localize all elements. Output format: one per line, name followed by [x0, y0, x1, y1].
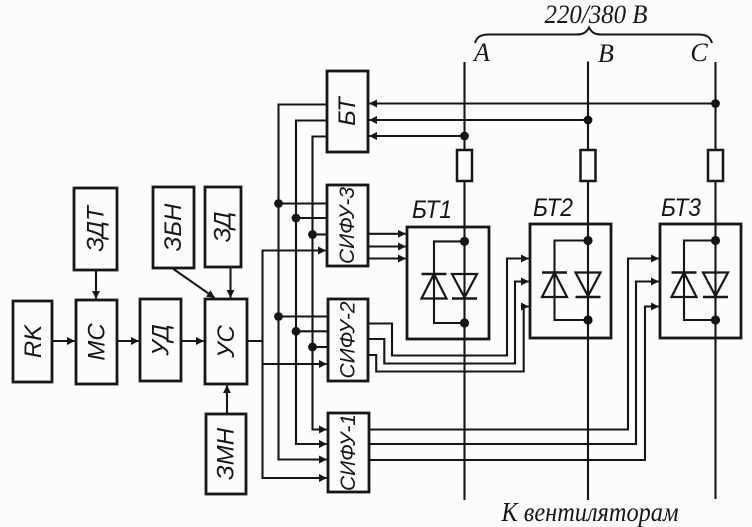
svg-text:ЗМН: ЗМН [213, 427, 240, 480]
block BT2 [530, 194, 611, 338]
wire SIFU-3 out 2 to BT1 [368, 245, 406, 247]
thyristor VS3b (down) in BT3 [703, 273, 728, 298]
BT3 internal commutation loop [684, 241, 716, 321]
block SIFU-2 [328, 299, 368, 381]
wire US output distribution [247, 251, 326, 342]
svg-text:ЗБН: ЗБН [160, 203, 187, 251]
svg-text:СИФУ-2: СИФУ-2 [337, 301, 360, 378]
svg-text:БТ3: БТ3 [661, 194, 701, 222]
wire ZD to US [229, 267, 231, 298]
svg-text:С: С [690, 38, 708, 67]
svg-text:МС: МС [84, 323, 111, 361]
wire riser1 tap to SIFU-2 [279, 315, 329, 317]
thyristor VS2a (up) in BT2 [542, 273, 567, 298]
BT1 internal commutation loop [434, 241, 465, 323]
svg-text:БТ1: БТ1 [412, 196, 452, 224]
phase line B [587, 62, 589, 151]
fuse FU2 phase B [581, 150, 596, 181]
junction dot riser1/SIFU-2 [274, 312, 283, 321]
wire riser3 tap to SIFU-2 [313, 346, 329, 348]
wire phase C to BT input 1 [370, 102, 716, 104]
junction dot riser3/SIFU-2 [308, 343, 317, 352]
wire phase A to BT input 3 [370, 135, 465, 137]
block MC [76, 300, 117, 384]
block BT [327, 71, 368, 152]
block RK [13, 301, 52, 382]
wire SIFU-2 out 1 to BT2 [368, 259, 529, 356]
svg-text:RK: RK [20, 324, 47, 358]
block SIFU-1 [328, 413, 369, 492]
wire phase B to BT input 2 [370, 119, 589, 121]
block ZBN [153, 187, 194, 268]
phase line C [714, 62, 716, 150]
wire ZBN to US diagonal [172, 268, 215, 298]
wire RK to MC [52, 340, 75, 342]
junction dot BT1 top [460, 237, 469, 246]
thyristor VS3a (up) in BT3 [672, 273, 697, 298]
block ZDT [74, 188, 117, 270]
wire BT sync riser 1 [279, 105, 328, 460]
block ZMN [206, 414, 246, 494]
wire BT sync riser 2 [296, 121, 327, 445]
fuse FU3 phase C [708, 150, 723, 181]
block UD [140, 299, 181, 381]
wire SIFU-1 out 2 to BT3 [369, 282, 659, 445]
wire SIFU-1 out 3 to BT3 [369, 307, 659, 461]
block BT1 [407, 196, 489, 339]
wire riser2 tap to SIFU-2 [296, 330, 328, 332]
junction dot C feed [711, 99, 720, 108]
wire SIFU-3 out 3 to BT1 [368, 257, 406, 259]
svg-text:СИФУ-3: СИФУ-3 [336, 187, 359, 264]
block US [205, 299, 247, 384]
wire ZDT to MC [95, 270, 97, 299]
block BT3 [660, 194, 741, 338]
svg-text:УД: УД [148, 324, 175, 357]
wire UD to US [181, 340, 204, 342]
svg-text:220/380 В: 220/380 В [545, 0, 648, 29]
wire US dist tap to SIFU-2 [263, 363, 327, 365]
wire US dist down leg [263, 341, 327, 478]
wire SIFU-2 out 2 to BT2 [368, 282, 529, 364]
svg-text:В: В [598, 39, 614, 68]
junction dot BT2 top [583, 236, 592, 245]
svg-text:ЗДТ: ЗДТ [83, 204, 110, 252]
junction dot riser1/SIFU-3 [274, 199, 283, 208]
wire BT sync riser 3 [313, 137, 328, 430]
wire SIFU-3 out 1 to BT1 [368, 233, 406, 235]
wire riser3 tap to SIFU-3 [313, 233, 328, 235]
junction dot BT3 top [711, 236, 720, 245]
junction dot BT1 bottom [460, 318, 469, 327]
junction dot A feed [460, 132, 469, 141]
block SIFU-3 [327, 185, 368, 266]
svg-text:БТ2: БТ2 [533, 194, 573, 222]
junction dot BT2 bottom [583, 315, 592, 324]
block ZD [205, 187, 241, 267]
thyristor VS1a (up) in BT1 [422, 274, 447, 299]
BT2 internal commutation loop [555, 241, 589, 321]
wire MC to UD [117, 340, 139, 342]
junction dot riser2/SIFU-3 [292, 214, 301, 223]
wire SIFU-2 out 3 to BT2 [368, 307, 529, 372]
wire riser2 tap to SIFU-3 [296, 217, 327, 219]
junction dot BT3 bottom [711, 315, 720, 324]
junction dot B feed [584, 116, 593, 125]
svg-text:ЗД: ЗД [210, 211, 237, 242]
svg-text:А: А [472, 38, 490, 67]
wire riser1 tap to SIFU-3 [279, 202, 328, 204]
wire ZMN to US [226, 386, 228, 415]
junction dot riser3/SIFU-3 [308, 230, 317, 239]
svg-text:УС: УС [213, 324, 240, 358]
fuse FU1 phase A [457, 150, 472, 181]
phase line A [463, 62, 465, 150]
thyristor VS2b (down) in BT2 [576, 273, 601, 298]
thyristor VS1b (down) in BT1 [452, 274, 477, 299]
brace over phases [475, 28, 712, 44]
svg-text:СИФУ-1: СИФУ-1 [337, 414, 360, 491]
wire SIFU-1 out 1 to BT3 [369, 259, 659, 430]
junction dot riser2/SIFU-2 [292, 327, 301, 336]
svg-text:К вентиляторам: К вентиляторам [501, 497, 679, 527]
svg-text:БТ: БТ [334, 95, 361, 126]
